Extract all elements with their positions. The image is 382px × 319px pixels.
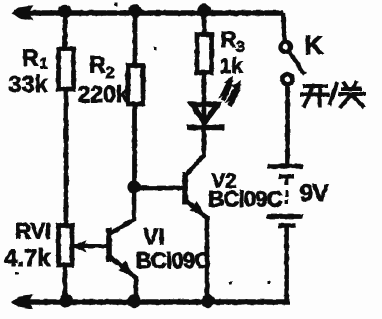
svg-text:BCl09C: BCl09C xyxy=(136,248,211,273)
svg-text:K: K xyxy=(305,30,324,60)
svg-text:1k: 1k xyxy=(220,55,244,78)
svg-text:RVI: RVI xyxy=(15,219,51,244)
svg-text:9V: 9V xyxy=(300,180,330,207)
svg-text:4.7k: 4.7k xyxy=(4,245,51,272)
svg-text:1: 1 xyxy=(40,55,48,72)
svg-text:R: R xyxy=(22,45,39,71)
svg-text:VI: VI xyxy=(143,224,165,250)
svg-text:3: 3 xyxy=(236,39,245,56)
svg-text:33k: 33k xyxy=(9,71,49,97)
svg-text:220k: 220k xyxy=(78,81,129,107)
svg-text:2: 2 xyxy=(106,65,115,82)
svg-text:R: R xyxy=(221,27,237,52)
svg-text:R: R xyxy=(89,52,106,78)
svg-text:BCl09C: BCl09C xyxy=(208,187,283,212)
